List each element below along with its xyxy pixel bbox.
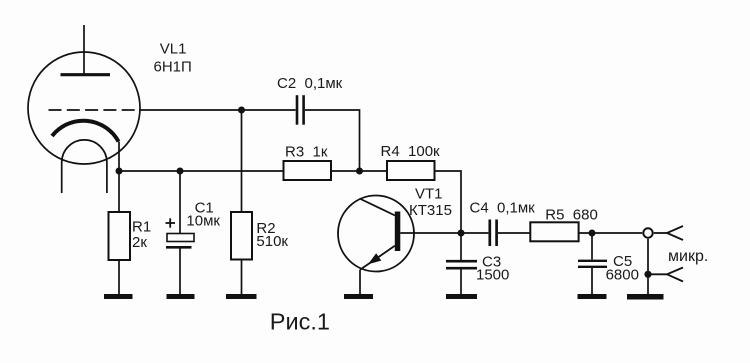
node connector bottom bbox=[644, 271, 651, 278]
tube VL1 cathode lead bbox=[118, 142, 120, 172]
ground (VT1 emitter) bbox=[344, 294, 373, 299]
tube VL1 cathode arc bbox=[52, 121, 119, 142]
svg-text:VL1: VL1 bbox=[160, 41, 187, 58]
svg-text:R3 1к: R3 1к bbox=[285, 144, 328, 161]
node grid/R2 junction bbox=[238, 107, 245, 114]
svg-text:R5 680: R5 680 bbox=[545, 207, 598, 224]
resistor R1 bbox=[118, 171, 120, 212]
transistor VT1 base lead bbox=[400, 232, 461, 234]
connector X1 bottom contact fork bbox=[648, 273, 667, 275]
resistor R3 bbox=[284, 161, 332, 180]
wire cathode bus bbox=[119, 170, 284, 172]
capacitor C3 bbox=[460, 233, 462, 260]
capacitor C4 bbox=[461, 232, 488, 234]
ground (R1) bbox=[104, 294, 133, 299]
connector X1 vertical wire bbox=[647, 239, 649, 294]
svg-text:6800: 6800 bbox=[606, 267, 639, 284]
connector X1 top contact fork bbox=[654, 232, 667, 234]
ground (C3) bbox=[446, 294, 477, 299]
resistor R2 bbox=[241, 110, 243, 212]
node R5/C5 bbox=[589, 230, 596, 237]
svg-text:R1: R1 bbox=[132, 219, 151, 236]
svg-text:VT1: VT1 bbox=[415, 186, 443, 203]
ground (connector) bbox=[627, 294, 664, 300]
connector X1 top contact circle bbox=[643, 228, 652, 237]
wire R5 to connector bbox=[579, 232, 643, 234]
transistor VT1 emitter bbox=[360, 246, 395, 270]
resistor R4 bbox=[387, 161, 435, 180]
node R3/R4/collector bbox=[356, 168, 363, 175]
C1 plus sign bbox=[166, 222, 176, 224]
svg-text:микр.: микр. bbox=[668, 248, 708, 265]
tube VL1 anode lead bbox=[83, 25, 85, 75]
transistor VT1 emitter arrow bbox=[368, 253, 381, 264]
transistor VT1 base bar bbox=[395, 212, 401, 252]
node C1 tap bbox=[177, 168, 184, 175]
svg-text:2к: 2к bbox=[132, 234, 147, 251]
svg-text:Рис.1: Рис.1 bbox=[270, 309, 330, 335]
svg-text:10мк: 10мк bbox=[186, 213, 220, 230]
wire R3 to R4 bbox=[331, 170, 387, 172]
svg-text:C2 0,1мк: C2 0,1мк bbox=[277, 75, 343, 92]
tube VL1 heater bbox=[62, 140, 107, 193]
svg-text:510к: 510к bbox=[256, 233, 288, 250]
svg-text:C4 0,1мк: C4 0,1мк bbox=[470, 200, 536, 217]
ground (C5) bbox=[578, 294, 607, 299]
transistor VT1 circle bbox=[338, 196, 414, 272]
svg-text:КТ315: КТ315 bbox=[409, 202, 452, 219]
capacitor C2 bbox=[296, 95, 299, 125]
transistor VT1 emitter lead bbox=[359, 270, 361, 294]
tube VL1 envelope bbox=[28, 52, 140, 164]
svg-text:R4 100к: R4 100к bbox=[381, 143, 441, 160]
ground (C1) bbox=[167, 294, 195, 299]
ground (R2) bbox=[226, 294, 257, 299]
tube VL1 grid (dashed) bbox=[49, 109, 140, 111]
svg-text:1500: 1500 bbox=[476, 267, 509, 284]
capacitor C1 bbox=[179, 171, 181, 234]
node cathode/R1 bbox=[116, 168, 123, 175]
svg-text:6Н1П: 6Н1П bbox=[154, 59, 192, 76]
transistor VT1 collector bbox=[360, 199, 396, 216]
wire R4 to base node bbox=[435, 171, 462, 233]
capacitor C5 bbox=[591, 233, 593, 260]
tube VL1 anode plate bbox=[61, 73, 111, 76]
wire C2 to R3/R4 node bbox=[305, 110, 360, 171]
wire grid line to C2 bbox=[139, 109, 296, 111]
resistor R5 bbox=[530, 222, 578, 241]
node base/C4/C3 bbox=[458, 230, 465, 237]
